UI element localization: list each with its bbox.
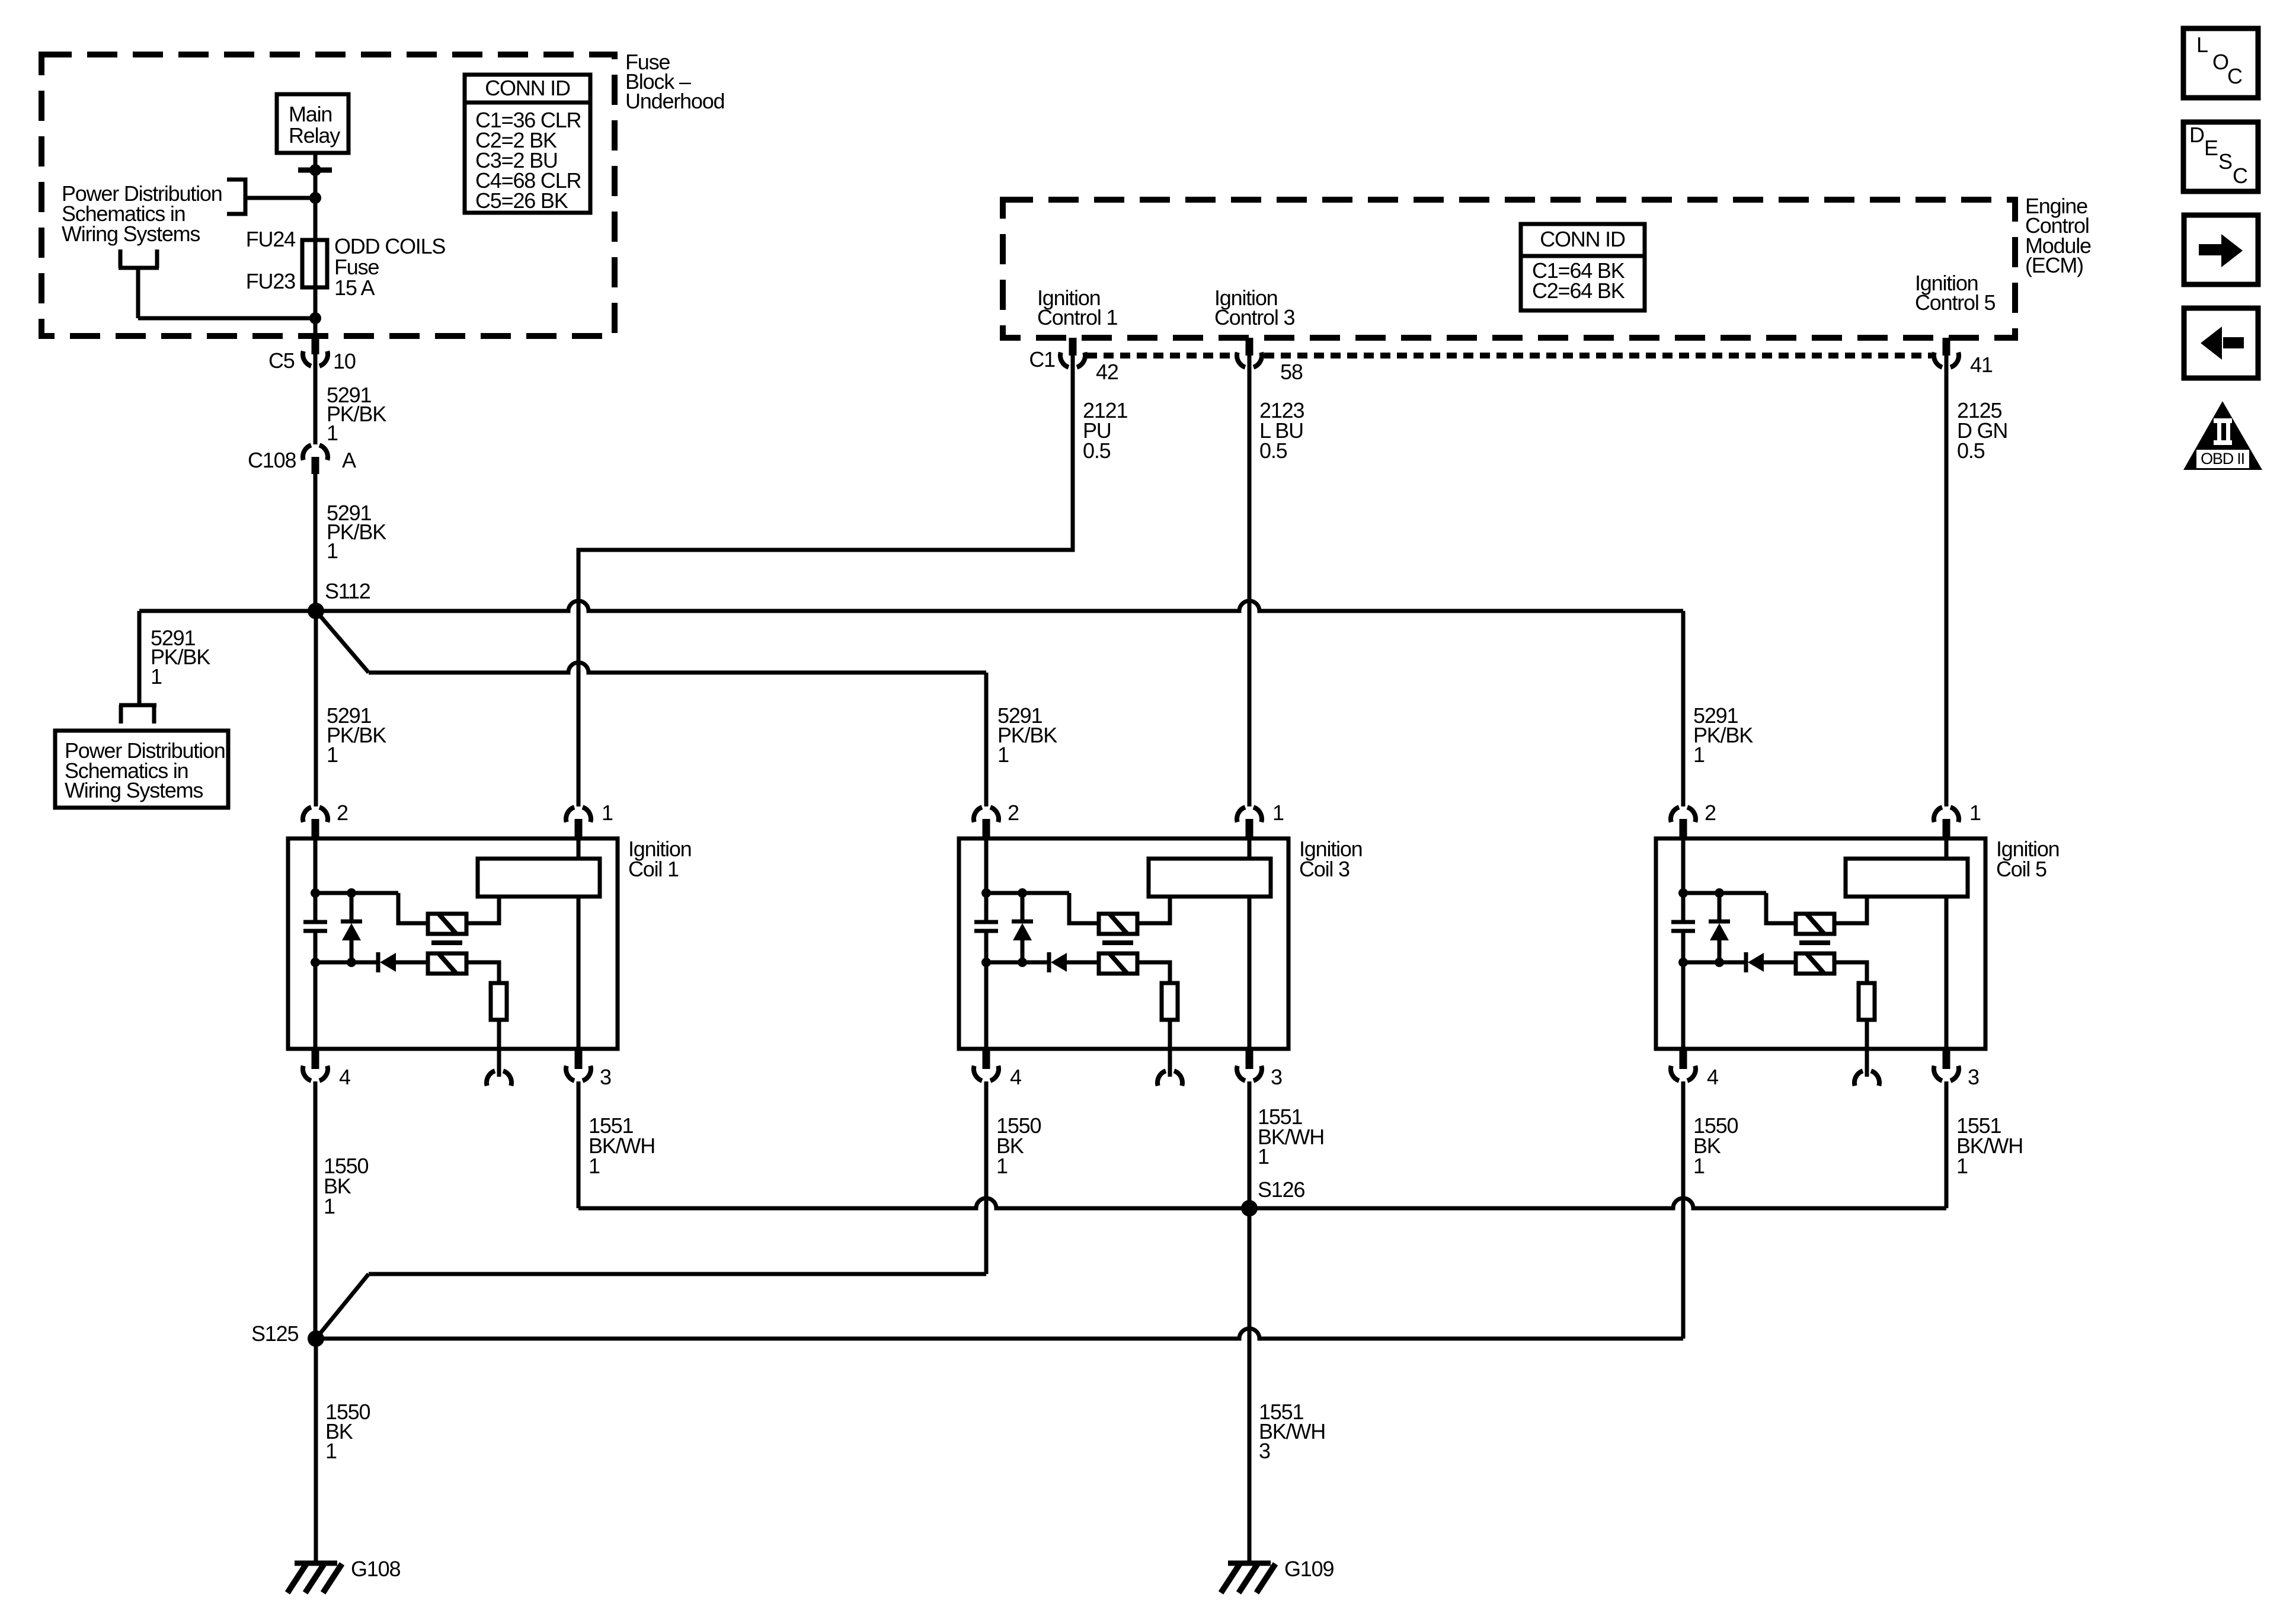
- svg-text:C2=64 BK: C2=64 BK: [1532, 279, 1625, 303]
- svg-text:1: 1: [327, 742, 338, 767]
- svg-text:D: D: [2189, 123, 2204, 147]
- svg-text:Wiring Systems: Wiring Systems: [62, 222, 200, 246]
- svg-text:A: A: [342, 448, 356, 472]
- svg-text:C: C: [2233, 164, 2247, 188]
- svg-text:G109: G109: [1284, 1557, 1334, 1581]
- svg-text:C108: C108: [248, 448, 296, 472]
- svg-text:1: 1: [327, 421, 338, 445]
- svg-text:0.5: 0.5: [1957, 438, 1985, 463]
- svg-text:Coil 3: Coil 3: [1299, 857, 1350, 881]
- svg-text:0.5: 0.5: [1259, 438, 1287, 463]
- svg-text:CONN ID: CONN ID: [485, 76, 570, 100]
- svg-text:Wiring Systems: Wiring Systems: [65, 778, 203, 802]
- svg-text:Underhood: Underhood: [625, 89, 724, 113]
- svg-text:1: 1: [602, 801, 613, 825]
- svg-text:Main: Main: [289, 102, 332, 126]
- svg-text:1: 1: [589, 1154, 600, 1178]
- svg-text:Relay: Relay: [289, 123, 340, 148]
- svg-text:1: 1: [1693, 742, 1705, 767]
- svg-text:FU24: FU24: [246, 227, 295, 251]
- svg-text:Coil 5: Coil 5: [1996, 857, 2046, 881]
- svg-text:1: 1: [1693, 1154, 1705, 1178]
- svg-text:1: 1: [327, 539, 338, 563]
- svg-text:1: 1: [996, 1154, 1008, 1178]
- svg-text:3: 3: [1259, 1439, 1270, 1463]
- svg-text:C5: C5: [268, 348, 295, 373]
- svg-text:1: 1: [997, 742, 1009, 767]
- svg-text:(ECM): (ECM): [2025, 253, 2083, 277]
- svg-text:CONN ID: CONN ID: [1540, 227, 1625, 251]
- svg-text:S125: S125: [251, 1321, 298, 1346]
- svg-text:3: 3: [600, 1065, 611, 1089]
- svg-text:Control 1: Control 1: [1037, 305, 1117, 329]
- svg-text:FU23: FU23: [246, 269, 295, 293]
- svg-text:41: 41: [1970, 353, 1993, 377]
- svg-text:OBD II: OBD II: [2201, 450, 2244, 468]
- svg-text:0.5: 0.5: [1083, 438, 1111, 463]
- svg-text:42: 42: [1096, 360, 1118, 384]
- svg-text:O: O: [2212, 50, 2228, 74]
- svg-text:2: 2: [337, 801, 348, 825]
- svg-text:S126: S126: [1258, 1177, 1304, 1202]
- svg-text:4: 4: [339, 1065, 350, 1089]
- svg-text:1: 1: [151, 664, 162, 689]
- svg-text:L: L: [2196, 33, 2208, 57]
- svg-text:1: 1: [324, 1194, 335, 1218]
- svg-text:E: E: [2204, 136, 2218, 160]
- svg-text:S112: S112: [325, 579, 370, 603]
- svg-text:C: C: [2227, 64, 2242, 88]
- svg-text:C1: C1: [1029, 347, 1055, 372]
- svg-text:C5=26 BK: C5=26 BK: [475, 188, 568, 213]
- svg-text:G108: G108: [351, 1557, 400, 1581]
- svg-text:Coil 1: Coil 1: [628, 857, 679, 881]
- svg-text:58: 58: [1280, 360, 1303, 384]
- svg-text:S: S: [2218, 149, 2232, 174]
- svg-text:1: 1: [325, 1439, 337, 1463]
- svg-text:15 A: 15 A: [334, 276, 375, 300]
- svg-text:Control 5: Control 5: [1915, 290, 1995, 315]
- svg-text:Control 3: Control 3: [1214, 305, 1294, 329]
- svg-text:1: 1: [1956, 1154, 1968, 1178]
- svg-text:10: 10: [333, 349, 356, 373]
- svg-text:1: 1: [1258, 1144, 1269, 1169]
